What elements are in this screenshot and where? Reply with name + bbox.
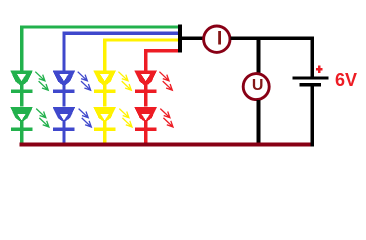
wire: D4 cathode to return bus [62,121,65,143]
LED D3 (blue, top) [53,70,91,92]
wire: D1 cathode to D2 anode [20,85,23,106]
ammeter P1 [204,26,230,52]
node A: common anode junction bar [178,25,182,53]
wire: blue string anode feed (horizontal) [62,32,179,35]
wire: red string anode feed (horizontal) [144,49,179,52]
label: battery + polarity [316,65,323,73]
wire: red string anode riser (vertical) [144,49,147,70]
LED D6 (yellow, bottom) [93,107,132,131]
wire: node A to ammeter [182,36,203,40]
svg-text:U: U [252,77,264,94]
wire: D2 cathode to return bus [20,121,23,143]
svg-text:6V: 6V [335,70,357,90]
wire: green string anode riser (vertical) [20,26,23,71]
wire: D8 cathode to return bus [144,121,147,143]
wire: green string anode feed (horizontal) [20,26,179,29]
wire: yellow string anode riser (vertical) [103,38,106,70]
voltmeter P2 [243,74,269,100]
LED D7 (red, top) [134,70,172,92]
wire: D5 cathode to D6 anode [103,85,106,106]
battery BT1 positive plate [293,77,329,80]
wire: voltmeter to return bus [256,100,260,143]
wire: D7 cathode to D8 anode [144,85,147,106]
wire: voltmeter branch from top rail [257,39,261,74]
wire: blue string anode riser (vertical) [62,32,65,71]
LED D1 (green, top) [10,70,48,92]
wire: yellow string anode feed (horizontal) [103,38,179,41]
svg-text:I: I [217,28,222,50]
wire: ammeter to battery positive (top horizontal) [231,36,314,40]
wire: drop to battery positive plate [310,36,313,76]
LED D2 (green, bottom) [10,107,49,131]
wire: D3 cathode to D4 anode [62,85,65,106]
battery BT1 negative plate [300,83,322,86]
wire: bottom return bus [20,142,311,146]
wire: battery negative to return bus [310,86,313,146]
LED D8 (red, bottom) [134,107,173,131]
LED D5 (yellow, top) [93,70,131,92]
wire: D6 cathode to return bus [103,121,106,143]
LED D4 (blue, bottom) [53,107,92,131]
